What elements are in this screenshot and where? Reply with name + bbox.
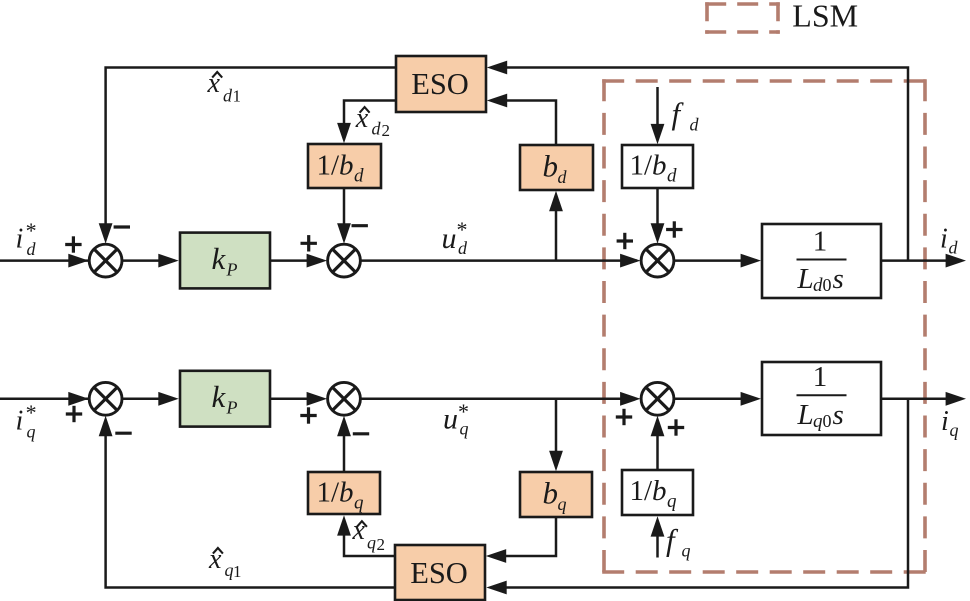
svg-text:1/: 1/: [630, 475, 654, 507]
svg-text:LSM: LSM: [792, 0, 858, 34]
svg-text:1/: 1/: [317, 477, 341, 509]
svg-text:d: d: [27, 239, 37, 259]
wire ESO_q xhat_q2 out: [337, 515, 395, 556]
svg-text:u: u: [442, 222, 457, 255]
wire b_d to ESO_d: [487, 94, 556, 145]
svg-text:d: d: [558, 167, 568, 187]
svg-text:i: i: [16, 406, 24, 437]
svg-text:s: s: [833, 263, 844, 295]
svg-text:1: 1: [233, 562, 242, 581]
label - at S1d: [114, 225, 130, 228]
legend label LSM: [792, 0, 858, 34]
gain block b_d: [520, 145, 593, 190]
observer block ESO_d: [396, 56, 486, 112]
svg-text:d: d: [372, 119, 382, 139]
svg-text:2: 2: [377, 535, 386, 554]
gain block 1/b_q white: [622, 470, 693, 515]
svg-text:x: x: [355, 103, 369, 134]
svg-text:1/: 1/: [630, 150, 654, 182]
label plant_d fraction: [797, 226, 847, 297]
label 1/b_q white: [630, 475, 678, 512]
wire u_q* tap to b_q: [549, 398, 563, 471]
summing junction S2d: [328, 244, 361, 277]
wire ESO_d xhat_d2 out: [337, 101, 396, 144]
wire S1d to kP_d: [122, 254, 179, 268]
wire f_q input: [651, 516, 665, 557]
label + at S3d left: [617, 233, 633, 249]
label i_d: [940, 224, 959, 258]
svg-text:q: q: [950, 420, 959, 440]
svg-text:L: L: [797, 399, 814, 431]
label ESO_d: [411, 67, 469, 101]
plant block 1/(Lq0 s): [762, 362, 881, 435]
wire i_d* input: [0, 254, 90, 268]
wire ESO_q xhat_q1 out: [99, 416, 395, 588]
svg-text:d: d: [458, 238, 468, 258]
svg-text:ESO: ESO: [410, 556, 468, 590]
svg-text:q: q: [813, 411, 823, 432]
plant block 1/(Ld0 s): [762, 224, 881, 298]
svg-text:u: u: [443, 403, 458, 436]
wire S2d to S3d: [360, 254, 640, 268]
svg-text:L: L: [797, 263, 814, 295]
svg-text:i: i: [941, 406, 949, 437]
svg-text:P: P: [226, 260, 238, 280]
svg-text:b: b: [652, 150, 667, 182]
svg-text:b: b: [339, 150, 354, 182]
gain block 1/b_d orange: [308, 144, 381, 188]
svg-text:q: q: [27, 422, 36, 442]
label f_q: [666, 523, 691, 561]
label 1/b_q orange: [317, 477, 365, 514]
wire 1/b_d to S2d: [337, 188, 351, 244]
summing junction S1q: [89, 382, 122, 415]
label xhat_d1: [207, 68, 242, 106]
label xhat_d2: [355, 103, 390, 140]
label + at S2d: [301, 235, 317, 251]
svg-text:1: 1: [233, 87, 242, 106]
wire b_q to ESO_q: [486, 517, 556, 563]
label + at S1d: [65, 236, 81, 252]
svg-text:0: 0: [823, 275, 832, 295]
svg-text:1/: 1/: [317, 150, 341, 182]
svg-text:q: q: [667, 491, 677, 512]
wire plant_q to output i_q: [881, 392, 966, 406]
label xhat_q2: [352, 515, 386, 554]
svg-text:d: d: [949, 238, 959, 258]
label - at S2d: [352, 224, 368, 227]
label u_q*: [443, 399, 469, 439]
svg-text:ESO: ESO: [411, 67, 469, 101]
wire d-feedback to ESO_d: [487, 61, 908, 261]
svg-text:i: i: [940, 224, 948, 255]
svg-text:1: 1: [813, 361, 828, 393]
label kP_q: [212, 379, 238, 418]
svg-text:d: d: [813, 275, 823, 296]
dashed region LSM boundary: [602, 79, 927, 574]
summing junction S3d: [641, 244, 674, 277]
wire u_d* tap to b_d: [549, 191, 563, 260]
svg-text:b: b: [652, 475, 667, 507]
svg-text:i: i: [16, 224, 24, 255]
label plant_q fraction: [797, 361, 847, 432]
label - at S1q: [115, 432, 131, 435]
svg-text:s: s: [833, 399, 844, 431]
label + at S3q bottom: [668, 419, 684, 435]
wire S3d to plant_d: [674, 254, 761, 268]
label xhat_q1: [208, 544, 242, 581]
svg-text:P: P: [226, 398, 238, 418]
wire f_d input: [651, 87, 665, 144]
svg-text:2: 2: [382, 121, 391, 140]
label 1/b_d white: [630, 150, 678, 187]
wire plant_d to output i_d: [881, 254, 966, 268]
label + at S2q: [300, 407, 316, 423]
svg-text:0: 0: [823, 411, 832, 431]
svg-text:q: q: [367, 533, 376, 553]
svg-text:d: d: [690, 115, 700, 135]
svg-text:x: x: [352, 515, 366, 546]
label u_d*: [442, 217, 469, 258]
label ESO_q: [410, 556, 468, 590]
svg-text:q: q: [354, 493, 364, 514]
wire S2q to S3q: [360, 392, 640, 406]
label + at S3q left: [616, 409, 632, 425]
gain block b_q: [520, 472, 592, 517]
wire 1/b_q white to S3q: [651, 416, 665, 470]
gain block kP_q: [180, 371, 270, 427]
summing junction S1d: [89, 244, 122, 277]
svg-text:b: b: [543, 149, 559, 184]
label b_d: [543, 149, 568, 188]
svg-text:k: k: [212, 241, 227, 276]
svg-text:d: d: [667, 166, 677, 187]
label kP_d: [212, 241, 238, 280]
gain block 1/b_d white: [622, 145, 693, 188]
label + at S3d top: [666, 221, 682, 237]
wire S1q to kP_q: [122, 392, 179, 406]
wire kP_q to S2q: [270, 392, 327, 406]
wire kP_d to S2d: [270, 254, 327, 268]
label + at S1q: [66, 406, 82, 422]
gain block kP_d: [180, 233, 270, 289]
wire 1/b_q to S2q: [337, 416, 351, 472]
wire q-feedback to ESO_q: [486, 399, 908, 595]
label - at S2q: [353, 432, 369, 435]
svg-text:d: d: [354, 166, 364, 187]
svg-text:b: b: [543, 476, 559, 511]
label i_q: [941, 406, 959, 440]
gain block 1/b_q orange: [308, 472, 380, 514]
label i_q*: [16, 400, 37, 442]
observer block ESO_q: [395, 545, 485, 600]
svg-text:q: q: [558, 494, 567, 514]
svg-text:k: k: [212, 379, 227, 414]
label i_d*: [16, 218, 37, 259]
wire S3q to plant_q: [674, 392, 761, 406]
wire 1/b_d white to S3d: [651, 188, 665, 244]
summing junction S2q: [328, 382, 361, 415]
svg-text:1: 1: [813, 226, 828, 258]
label b_q: [543, 476, 567, 515]
svg-text:q: q: [682, 541, 691, 561]
wire i_q* input: [0, 392, 90, 406]
svg-text:x: x: [208, 544, 222, 575]
svg-text:q: q: [460, 419, 469, 439]
svg-text:b: b: [339, 477, 354, 509]
svg-text:d: d: [223, 86, 233, 106]
label f_d: [672, 96, 700, 135]
legend dashed box: [705, 2, 780, 34]
label 1/b_d orange: [317, 150, 365, 187]
wire ESO_d xhat_d1 out: [99, 68, 396, 244]
summing junction S3q: [641, 382, 674, 415]
